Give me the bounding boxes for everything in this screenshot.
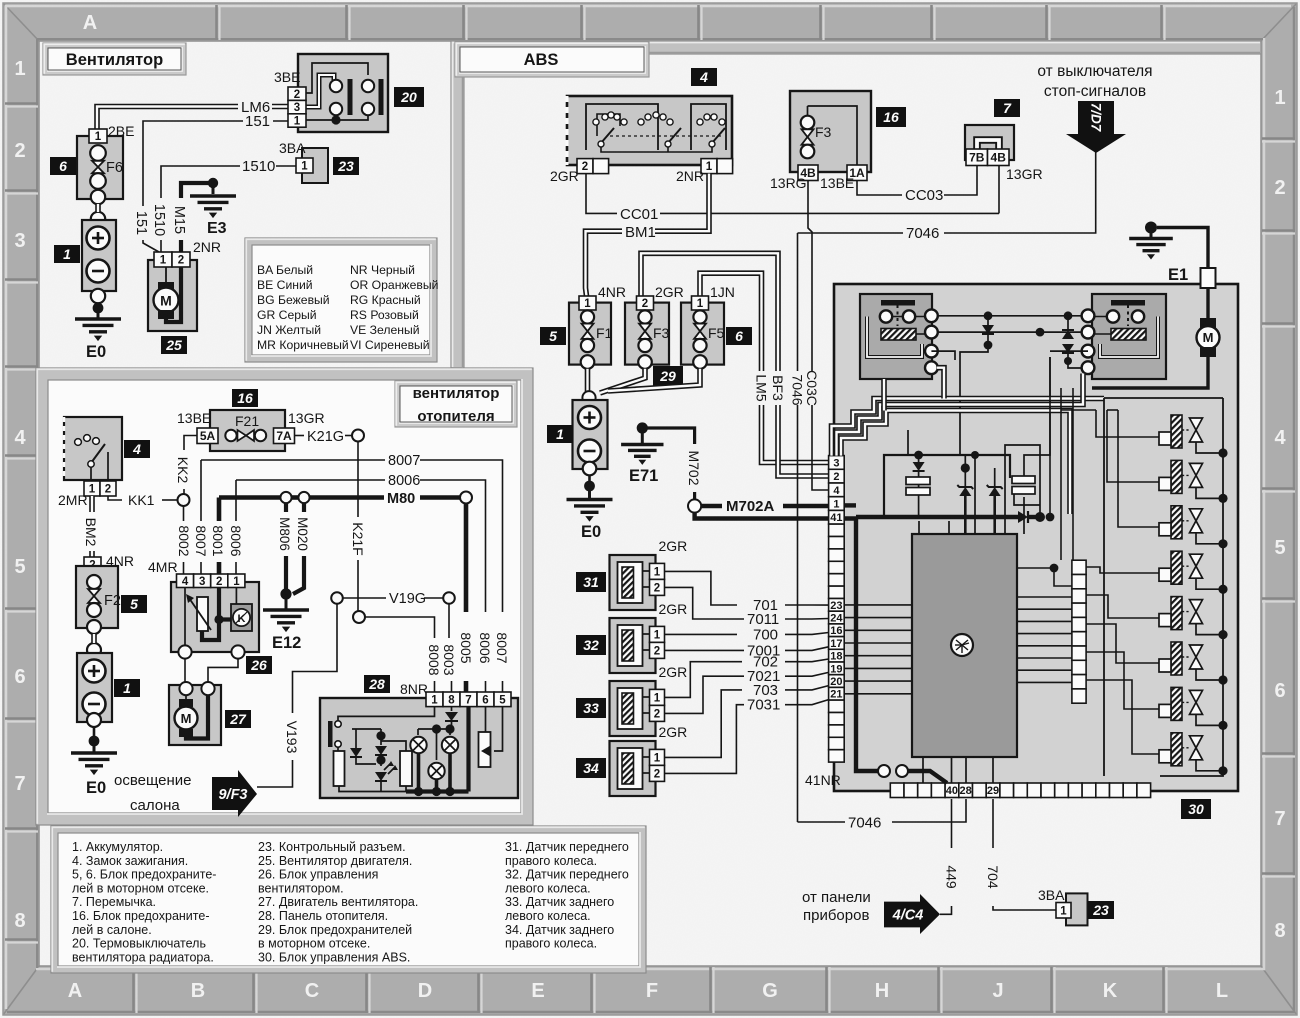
connector pin 2 4NR [84,557,101,572]
arrow 4/C4 [884,894,940,934]
pins 4B 1A on fuse 16 [798,165,818,181]
sensor 32 front left [610,618,656,673]
wire 8007 horizontal [201,459,385,461]
diode and caps in component box [914,451,923,460]
LM5/BF3 drop into unit30 pins 3/2 [762,405,829,463]
tag 16 (heater) [232,389,258,407]
sensor 31 front right [610,555,656,610]
wire CC03 from 1A to jumper 7B [857,181,902,196]
F21 fuse symbol horizontal [225,430,236,441]
title box: ABS [455,42,649,77]
sensor wires to unit 30 pins 23,24,16,17,18,19,20,21 [665,571,738,605]
wire CC01 from pin 2 [586,174,617,214]
wire 8003 drop from V19G to panel 28 pin 8 [448,604,450,612]
wire 7046 horizontal and vertical [798,232,904,234]
fuse block 5/6 ABS: fuse F1 [569,303,611,365]
wire from M702 circle to unit30 pin 41 (thick) [695,513,828,519]
heater control unit 26 body [171,582,259,652]
wire 8006 horizontal [236,479,385,481]
diode pair near relay2 [1062,330,1074,339]
ignition switch 4 internals [75,439,82,446]
wire E1 to motor [1157,228,1208,269]
ignition switch 4 (ABS) internals [586,104,658,150]
relay 2 input circles [1082,309,1095,322]
wires from fuses to battery node [585,369,591,392]
tag 27 [225,710,251,728]
ECU to middle column wires [1017,596,1072,598]
staircase wires from pins 3 2 4 up into unit [832,399,1105,456]
relay1-relay2 linking wires [937,315,1082,317]
colour legend box frame [245,238,437,362]
jumper 7 body [965,125,1014,160]
M702 junction circle [688,499,701,512]
sensor 34 rear right [610,741,656,796]
wire KK1 from switch pin 2 to junction [108,496,122,500]
valve enclosure box [1104,397,1223,399]
wires M806 M020 to ground E12 [284,503,288,512]
heater motor 27 body [169,685,221,745]
sensor 33 rear left [610,681,656,736]
ground E0 (fan) [97,303,100,308]
fuse block 6 with fuse F6 [77,136,123,199]
ECU block inside unit 30 [912,534,1017,757]
fuse 16 (ABS) body F3 [790,91,871,172]
thermoswitch pins 2 3 1 (3BE) [288,87,306,100]
wire 8007 drop to unit26 pin 3 [200,460,202,521]
connector pins 1 2 (2NR) on motor 25 [154,252,172,267]
ground E3 [208,178,218,188]
battery 1 (fan section) [82,220,116,291]
tag 16 (ABS) [876,107,906,127]
M80 right circle and 8005 drop [460,492,472,504]
pins 5A 7A on fuse 16 [197,428,218,444]
ignition switch pins 1 2 (2MR) [84,481,100,496]
ABS control unit 30 panel [834,284,1238,791]
motor M symbol 25 [165,267,167,284]
thermoswitch 20 internals [306,63,368,93]
tag 23 [333,157,359,175]
wire 8008 from junction to panel 28 pin 1 [365,617,435,638]
tag 29 [653,366,683,386]
bottom wire 7046 to unit30 cell 28 [798,821,846,823]
tag 5 (heater fuse block) [121,595,147,613]
control connector 23 (3BA) top [302,148,328,183]
relay 1 output circles [925,309,938,322]
wire K21F vertical [357,442,359,518]
tag 23 (bottom) [1088,901,1114,919]
junction circle KK1/KK2/8002 [178,494,190,506]
heater panel 28 body [320,698,518,798]
thick bus inside unit30 with diode [844,503,856,507]
fuse F3 (block 29) [625,303,669,365]
arrow 9/F3 [212,770,257,817]
wire 8002 from junction down to unit 26 pin 4 [183,506,185,521]
ground E0 (heater) [93,727,96,741]
ignition switch 4 (heater) body [64,417,122,480]
wire from F3 pin 2 up and over to BF3 [641,253,778,371]
title box: Вентилятор [43,43,186,75]
tag 20 [394,87,424,107]
wire 704 from unit30 cell 29 down to connector 23 [992,799,994,848]
unit 26 internals: rheostat with arrow [184,588,186,651]
tag 6 (ABS) [726,327,752,345]
jumper 7 pins 7B 4B [966,149,988,166]
unit 26 internals: thick path and K circle [219,588,231,620]
battery 1 (heater) [77,653,112,722]
wire M80 thick with M806/M020 circles [219,495,281,500]
wire V19G with circles [342,597,386,599]
fuse 16 (F21) heater [210,410,285,451]
ECU bottom wires to strip [922,757,924,783]
wires from ECU top to relays area [974,455,976,534]
tag 26 [246,656,272,674]
arrow 7/D7 [1066,101,1126,153]
tag 7 [994,99,1020,117]
component box left-middle inside unit 30 [884,455,1010,517]
unit 30 left connector column [829,456,845,470]
wire M702A thick to unit30 pin 1 [702,504,723,508]
tag 4 (ABS ignition switch) [691,68,717,86]
vertical feeder wires upper middle [1049,357,1051,517]
tag 5 (ABS) [540,327,566,345]
solenoid valves (8) [1159,415,1228,458]
wire LM6 from fuse F6 to thermoswitch pin 3 (double line) [97,107,238,130]
wire M15 from motor pin 2 to ground E3 (thick) [179,240,183,252]
tag 25 [161,336,187,354]
zener diodes [959,487,971,496]
wire BM1 (double) from pin 1 down to fuse F1 [655,174,709,232]
legend box frame [51,826,646,973]
ignition switch 4 (ABS) pins 2 and 1 [577,159,593,174]
relay 1 inside unit 30 [860,294,932,379]
wire K21G from 7A to circle [295,435,305,437]
ground E0 (ABS) [588,475,591,486]
panel 28 internals [328,721,333,747]
diode near relay1 [982,325,994,334]
unit 26 connector strip 4MR pins 4 3 2 1 [177,574,194,588]
heater-fan section frame [36,368,533,825]
wire 1510 from connector 23 pin 1 to motor pin 1 [276,165,296,167]
wire KK2 from fuse F21 5A down to junction [184,436,197,451]
relay1 drop wire [881,379,887,411]
tag 28 [364,675,390,693]
pins 23-21 wires into ECU [844,604,912,606]
tag 30 [1181,799,1211,819]
junction circle for 8008 [353,611,365,623]
wire 8001 thick drop to unit26 pin 2 [217,498,222,522]
wire CC01 from jumper 4B down [998,166,1000,214]
tag 4 (heater ignition switch) [124,440,150,458]
wire from F5 pin 1 up and over to LM5 [700,273,762,371]
wires relay circles to component box / ECU [931,351,955,360]
motor 27 M symbol [185,695,187,701]
middle column to valve staircase wires [1096,410,1159,437]
F3 fuse symbol [801,116,815,130]
unit 30 bottom connector strip [890,783,904,798]
fuse F5 [681,303,724,365]
chain circles to battery [91,190,105,204]
fuse F6 symbol [90,145,106,161]
connector square on unit 30 top edge [1201,268,1216,288]
wire C03C from 4B down to unit30 pin 4 [808,181,812,372]
relay 2 inside unit 30 [1092,294,1166,379]
wire V193 from V19G left circle down to arrow 9/F3 [293,604,338,713]
thermoswitch 20 body [298,54,388,132]
wire 449 from unit30 cell 40 down to arrow 4/C4 [951,799,953,848]
ignition switch 4 (ABS) body [567,96,732,165]
battery 1 (ABS) [582,391,595,404]
ABS section frame [451,41,1261,368]
wire 151 from thermoswitch pin 1 down-left to motor pin 1 [273,120,292,122]
valve right bus [1160,398,1223,776]
ground E71 and wire M702 [637,422,648,433]
motor M inside unit 30 [1200,318,1216,328]
wire BM2 from switch pin 1 down (double) [89,496,95,512]
ground E12 [280,588,291,599]
thick wire pin41 to bottom strip (41NR) [844,519,878,772]
tag 6 [50,157,76,175]
connector 23 bottom (3BA) [1066,893,1088,925]
fuse block 5 with fuse F2 [76,566,118,628]
connector pin 1 2BE on fuse block 6 [89,129,107,143]
title box: вентилятор отопителя [395,381,517,427]
unit 26 output circles [178,645,191,658]
wire 8006 drop to unit26 pin 1 [235,480,237,521]
motor 25 (radiator fan motor) [148,260,197,331]
panel 28 connector pins 1 8 7 6 5 [426,692,443,707]
ground E1 [1145,222,1157,234]
middle connector column inside unit 30 [1072,560,1086,574]
tag 1 (fan battery) [54,245,80,263]
wires unit26 to motor 27 [184,659,186,682]
